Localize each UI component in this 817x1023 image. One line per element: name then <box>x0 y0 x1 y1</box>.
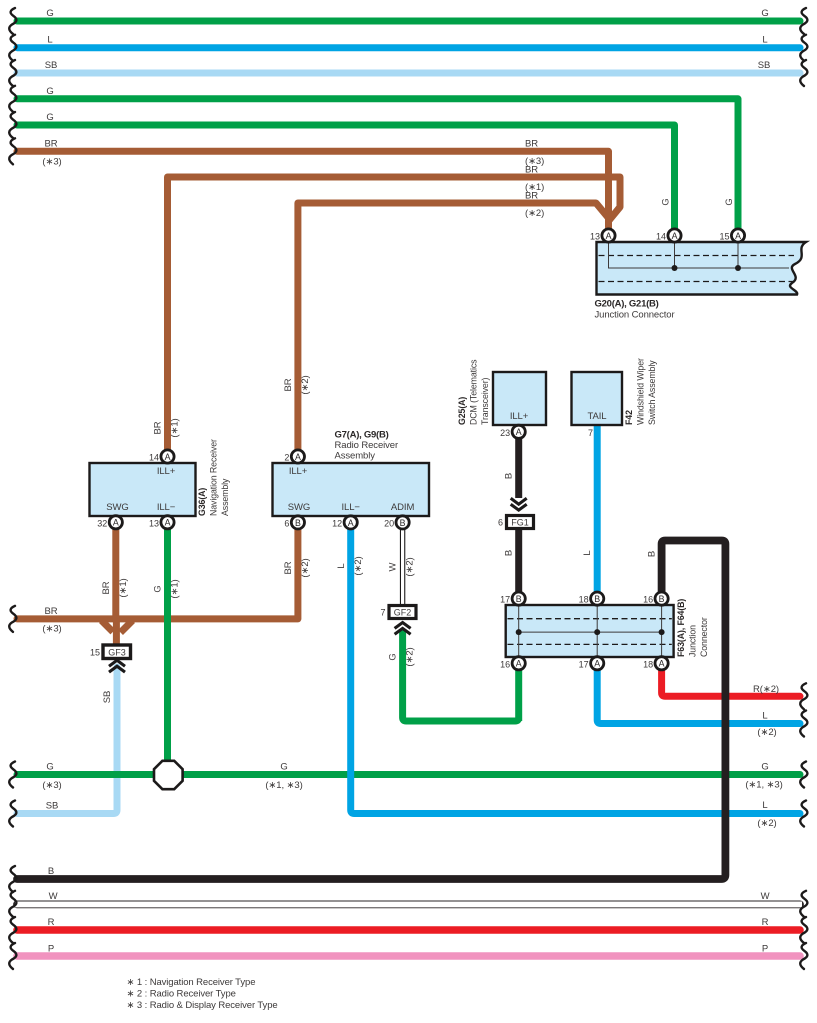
svg-text:FG1: FG1 <box>511 517 529 527</box>
svg-text:G: G <box>724 198 735 205</box>
svg-text:L: L <box>762 711 767 722</box>
svg-text:Transceiver): Transceiver) <box>480 377 490 425</box>
svg-text:A: A <box>295 452 301 462</box>
svg-text:A: A <box>516 427 522 437</box>
pin 16 B of F63 <box>643 592 668 605</box>
svg-text:7: 7 <box>588 428 593 438</box>
wire G bus to pin 14 <box>17 125 675 229</box>
svg-text:BR: BR <box>283 561 294 574</box>
svg-text:Switch Assembly: Switch Assembly <box>647 360 657 425</box>
svg-text:Junction Connector: Junction Connector <box>595 310 675 321</box>
squiggle right R <box>800 917 807 943</box>
svg-text:15: 15 <box>90 648 100 658</box>
svg-text:2: 2 <box>284 453 289 463</box>
svg-text:Navigation Receiver: Navigation Receiver <box>209 439 219 516</box>
svg-text:A: A <box>659 659 665 669</box>
svg-text:Connector: Connector <box>699 617 709 657</box>
squiggle right P <box>800 943 807 969</box>
svg-text:SB: SB <box>102 691 113 703</box>
svg-text:A: A <box>672 231 678 241</box>
svg-text:SB: SB <box>46 801 58 812</box>
squiggle left G4 <box>9 86 16 112</box>
chevron arrow down into FG1 <box>511 498 527 510</box>
svg-text:G: G <box>761 8 768 19</box>
svg-text:ILL−: ILL− <box>157 502 176 513</box>
svg-text:G: G <box>661 198 672 205</box>
svg-text:ADIM: ADIM <box>391 502 415 513</box>
svg-text:G: G <box>761 762 768 773</box>
svg-text:A: A <box>348 518 354 528</box>
svg-text:18: 18 <box>579 595 589 605</box>
svg-text:14: 14 <box>656 232 666 242</box>
svg-text:GF3: GF3 <box>108 648 126 658</box>
svg-text:SB: SB <box>758 60 770 71</box>
svg-text:Junction: Junction <box>688 625 698 657</box>
wire W bus bottom white core <box>15 901 802 907</box>
svg-text:B: B <box>594 594 600 604</box>
svg-text:GF2: GF2 <box>394 607 412 617</box>
pin 23 A of G25 <box>500 425 525 438</box>
wire BR (*3) bus to pin 13 <box>17 151 609 229</box>
pin 12 A of G7 <box>332 516 357 529</box>
squiggle left P <box>9 943 16 969</box>
svg-text:W: W <box>388 562 399 571</box>
squiggle left R <box>9 917 16 943</box>
svg-text:BR: BR <box>101 581 112 594</box>
svg-text:(∗2): (∗2) <box>353 556 364 575</box>
connector FG1 <box>507 516 534 529</box>
wire G bus to pin 15 <box>17 99 738 229</box>
svg-text:DCM (Telematics: DCM (Telematics <box>469 359 479 425</box>
squiggle right G lower <box>800 762 807 788</box>
svg-text:(∗2): (∗2) <box>300 558 311 577</box>
svg-text:R: R <box>762 917 769 928</box>
pin 16 A of F63 <box>500 657 525 670</box>
pin 17 B of F63 <box>500 592 525 605</box>
svg-text:P: P <box>762 943 768 954</box>
svg-text:G: G <box>46 112 53 123</box>
svg-text:A: A <box>594 659 600 669</box>
pin 14 A of G36 <box>149 450 174 463</box>
svg-text:G: G <box>153 585 164 592</box>
svg-text:B: B <box>295 518 301 528</box>
svg-text:Assembly: Assembly <box>220 478 230 516</box>
connector GF2 <box>389 606 416 619</box>
svg-text:G: G <box>280 762 287 773</box>
svg-text:R: R <box>48 917 55 928</box>
svg-text:Assembly: Assembly <box>335 451 376 462</box>
pin 20 B of G7 <box>384 516 409 529</box>
squiggle left L <box>9 35 16 61</box>
wire B thick from F63 pin 16B via right vertical to B bus <box>17 541 725 880</box>
squiggle right L lower <box>800 801 807 827</box>
wire G bus lower <box>17 771 800 778</box>
wire BR (*2) from G7 pin 2 <box>298 203 609 450</box>
svg-text:6: 6 <box>284 518 289 528</box>
component G7(A) G9(B) Radio Receiver Assembly <box>273 463 430 516</box>
svg-text:B: B <box>504 473 515 479</box>
svg-text:P: P <box>48 943 54 954</box>
wire SB bus top <box>17 70 800 77</box>
svg-text:16: 16 <box>643 595 653 605</box>
svg-text:6: 6 <box>498 517 503 527</box>
chevron arrow up out of GF2 <box>395 623 411 635</box>
svg-text:W: W <box>761 891 770 902</box>
squiggle right W <box>800 891 807 917</box>
svg-text:∗ 3 : Radio & Display Receiver: ∗ 3 : Radio & Display Receiver Type <box>127 1000 278 1011</box>
svg-text:A: A <box>165 518 171 528</box>
squiggle left G lower <box>9 762 16 788</box>
svg-text:(∗3): (∗3) <box>42 780 61 791</box>
wire W from G7 pin 20 to GF2 white core <box>401 528 404 605</box>
svg-text:B: B <box>48 866 54 877</box>
svg-text:A: A <box>606 231 612 241</box>
svg-text:17: 17 <box>500 595 510 605</box>
svg-text:Windshield Wiper: Windshield Wiper <box>636 358 646 425</box>
svg-text:SWG: SWG <box>106 502 128 513</box>
svg-text:L: L <box>336 563 347 568</box>
svg-text:(∗1): (∗1) <box>118 578 129 597</box>
squiggle left SB <box>9 60 16 86</box>
squiggle left G1 <box>9 8 16 34</box>
wire BR merge V into GF3 <box>102 621 133 633</box>
junction connector G20(A) G21(B) <box>597 242 807 295</box>
svg-text:G: G <box>46 86 53 97</box>
pin 6 B of G7 <box>284 516 304 529</box>
svg-text:13: 13 <box>149 518 159 528</box>
svg-text:B: B <box>647 551 658 557</box>
wire G bus top 1 <box>17 18 800 25</box>
svg-text:G: G <box>46 762 53 773</box>
svg-text:BR: BR <box>525 190 538 201</box>
svg-text:7: 7 <box>380 607 385 617</box>
svg-text:G36(A): G36(A) <box>197 488 207 516</box>
svg-text:BR: BR <box>45 606 58 617</box>
wire L from F42 pin 7 to F63 pin 18B <box>594 425 601 592</box>
pin 15 A of G20 <box>719 229 744 242</box>
squiggle right L2 <box>800 711 807 737</box>
component G36(A) Navigation Receiver Assembly <box>90 463 196 516</box>
wire G from G36 pin 13 to octagon <box>164 529 171 762</box>
pin 14 A of G20 <box>656 229 681 242</box>
svg-text:(∗1, ∗3): (∗1, ∗3) <box>745 780 782 791</box>
svg-text:17: 17 <box>579 659 589 669</box>
svg-text:(∗2): (∗2) <box>757 727 776 738</box>
svg-text:(∗1): (∗1) <box>170 418 181 437</box>
squiggle left B <box>9 866 16 892</box>
wire R from F63 pin 18A to right edge <box>662 670 800 696</box>
svg-text:∗ 1 : Navigation Receiver Type: ∗ 1 : Navigation Receiver Type <box>127 977 256 988</box>
wire P bus bottom <box>17 952 800 960</box>
svg-text:R(∗2): R(∗2) <box>753 684 779 695</box>
pin 13 A of G36 <box>149 516 174 529</box>
wire L from G7 pin 12 to L bus right <box>351 529 800 814</box>
svg-text:B: B <box>400 518 406 528</box>
squiggle right R2 <box>800 683 807 709</box>
svg-text:(∗1): (∗1) <box>170 579 181 598</box>
pin 32 A of G36 <box>97 516 122 529</box>
wire BR (*1) from G36 pin 14 <box>168 177 621 450</box>
squiggle left G5 <box>9 112 16 138</box>
wire L from F63 pin 17A to right edge <box>597 670 800 724</box>
svg-text:A: A <box>735 231 741 241</box>
svg-text:(∗2): (∗2) <box>525 208 544 219</box>
svg-text:G25(A): G25(A) <box>457 397 467 425</box>
svg-text:ILL−: ILL− <box>342 502 361 513</box>
svg-text:23: 23 <box>500 428 510 438</box>
svg-text:SWG: SWG <box>288 502 310 513</box>
squiggle left BR lower <box>9 606 16 632</box>
svg-text:B: B <box>516 594 522 604</box>
svg-text:14: 14 <box>149 453 159 463</box>
svg-text:(∗3): (∗3) <box>42 624 61 635</box>
squiggle left SB lower <box>9 801 16 827</box>
pin 17 A of F63 <box>579 657 604 670</box>
wire SB from GF3 to SB bus <box>17 667 117 814</box>
svg-text:G: G <box>388 653 399 660</box>
component F42 Windshield Wiper Switch Assembly <box>572 372 623 425</box>
svg-text:32: 32 <box>97 518 107 528</box>
wire W bus bottom black edge <box>17 901 800 909</box>
svg-text:L: L <box>582 550 593 555</box>
svg-text:(∗2): (∗2) <box>300 375 311 394</box>
wire G from GF2 to F63 pin 16A <box>403 629 519 721</box>
svg-text:12: 12 <box>332 518 342 528</box>
chevron arrow up out of GF3 <box>109 660 125 672</box>
svg-text:ILL+: ILL+ <box>289 466 308 477</box>
node octagon junction on G bus <box>154 761 183 789</box>
svg-text:G20(A), G21(B): G20(A), G21(B) <box>595 299 659 310</box>
wire B from FG1 to F63 pin 17B <box>515 528 522 592</box>
svg-text:BR: BR <box>45 138 58 149</box>
svg-text:ILL+: ILL+ <box>157 466 176 477</box>
wire B from G25 pin 23 to FG1 <box>515 438 522 498</box>
svg-text:B: B <box>659 594 665 604</box>
pin 13 A of G20 <box>590 229 615 242</box>
svg-text:L: L <box>762 35 767 46</box>
pin 18 B of F63 <box>579 592 604 605</box>
svg-text:BR: BR <box>153 421 164 434</box>
wire BR from G36 pin 32 <box>112 529 120 645</box>
svg-text:13: 13 <box>590 232 600 242</box>
svg-text:20: 20 <box>384 518 394 528</box>
svg-text:BR: BR <box>525 138 538 149</box>
svg-text:TAIL: TAIL <box>588 411 607 422</box>
svg-text:(∗1, ∗3): (∗1, ∗3) <box>265 780 302 791</box>
squiggle left BR <box>9 138 16 164</box>
svg-text:(∗2): (∗2) <box>405 647 416 666</box>
svg-text:F42: F42 <box>624 410 634 425</box>
svg-text:15: 15 <box>719 232 729 242</box>
svg-text:16: 16 <box>500 659 510 669</box>
squiggle left W <box>9 891 16 917</box>
svg-text:A: A <box>165 452 171 462</box>
pin 2 A of G7 <box>284 450 304 463</box>
svg-text:W: W <box>49 891 58 902</box>
wire BR lower bus from left to G7 pin 6 <box>17 529 298 619</box>
svg-text:BR: BR <box>283 378 294 391</box>
svg-text:ILL+: ILL+ <box>510 411 529 422</box>
svg-text:A: A <box>516 659 522 669</box>
squiggle right L <box>800 35 807 61</box>
pin 18 A of F63 <box>643 657 668 670</box>
svg-text:B: B <box>504 550 515 556</box>
wire R bus bottom <box>17 926 800 934</box>
svg-text:A: A <box>113 518 119 528</box>
svg-text:BR: BR <box>525 164 538 175</box>
squiggle right SB <box>800 60 807 86</box>
svg-text:(∗2): (∗2) <box>757 818 776 829</box>
svg-text:G7(A), G9(B): G7(A), G9(B) <box>335 430 389 441</box>
svg-text:18: 18 <box>643 659 653 669</box>
junction connector F63(A) F64(B) <box>506 605 674 657</box>
squiggle right G1 <box>800 8 807 34</box>
svg-text:L: L <box>47 35 52 46</box>
svg-text:G: G <box>46 8 53 19</box>
svg-text:F63(A), F64(B): F63(A), F64(B) <box>676 599 686 657</box>
wire W from G7 pin 20 to GF2 black edge <box>400 529 405 606</box>
connector GF3 double border <box>103 645 131 659</box>
svg-text:(∗3): (∗3) <box>42 156 61 167</box>
svg-text:L: L <box>762 800 767 811</box>
component G25(A) DCM Telematics Transceiver <box>493 372 546 425</box>
svg-text:∗ 2 : Radio Receiver Type: ∗ 2 : Radio Receiver Type <box>127 989 236 1000</box>
svg-text:(∗2): (∗2) <box>405 557 416 576</box>
svg-text:SB: SB <box>45 60 57 71</box>
svg-text:Radio Receiver: Radio Receiver <box>335 440 399 451</box>
wire L bus top <box>17 44 800 51</box>
